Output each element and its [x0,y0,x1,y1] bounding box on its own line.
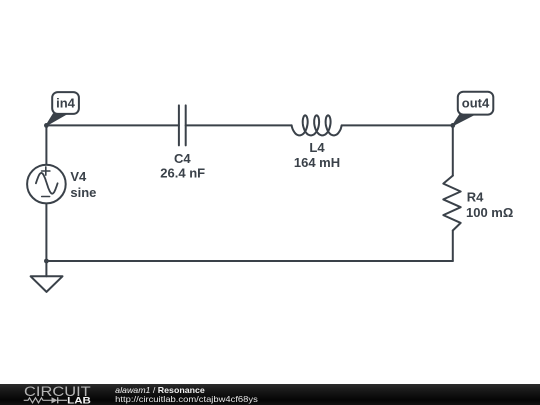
wire bottom segment [46,260,452,262]
svg-text:V4: V4 [70,169,87,184]
wire top segment from in4 node to C4 [46,124,179,126]
svg-text:in4: in4 [56,96,76,111]
CircuitLab logo diode [52,397,68,403]
svg-text:out4: out4 [462,96,490,111]
svg-text:164 mH: 164 mH [294,155,340,170]
V4 sine symbol [36,173,58,194]
inductor L4 coil [292,115,342,135]
ground junction dot [44,259,49,264]
wire top segment from L4 to out4 node [342,124,453,126]
svg-text:R4: R4 [467,190,484,205]
svg-text:100 mΩ: 100 mΩ [466,205,513,220]
wire right vertical from out4 node to R4 top [452,125,454,175]
wire left vertical from in4 node to V4 top [45,125,47,165]
footer black bar [0,384,540,405]
svg-text:sine: sine [70,185,96,200]
wire top segment from C4 to L4 [186,124,292,126]
svg-text:LAB: LAB [67,395,91,405]
node label out4 flag [453,92,494,126]
svg-text:26.4 nF: 26.4 nF [160,165,205,180]
svg-text:L4: L4 [309,140,325,155]
node label in4 flag [46,92,79,125]
V4 minus sign [42,196,50,198]
voltage source V4 circle [27,165,66,204]
node in4 junction dot [44,123,49,128]
wire right vertical from R4 bottom to corner [452,231,454,262]
V4 plus sign [42,167,50,175]
svg-text:http://circuitlab.com/ctajbw4c: http://circuitlab.com/ctajbw4cf68ys [115,394,258,404]
wire left vertical from V4 bottom to ground junction [45,203,47,261]
ground symbol [31,261,63,292]
resistor R4 zigzag [443,176,460,231]
capacitor C4 plates [179,105,186,145]
node out4 junction dot [450,123,455,128]
svg-text:C4: C4 [174,151,191,166]
CircuitLab logo schematic squiggle wire [24,398,52,403]
